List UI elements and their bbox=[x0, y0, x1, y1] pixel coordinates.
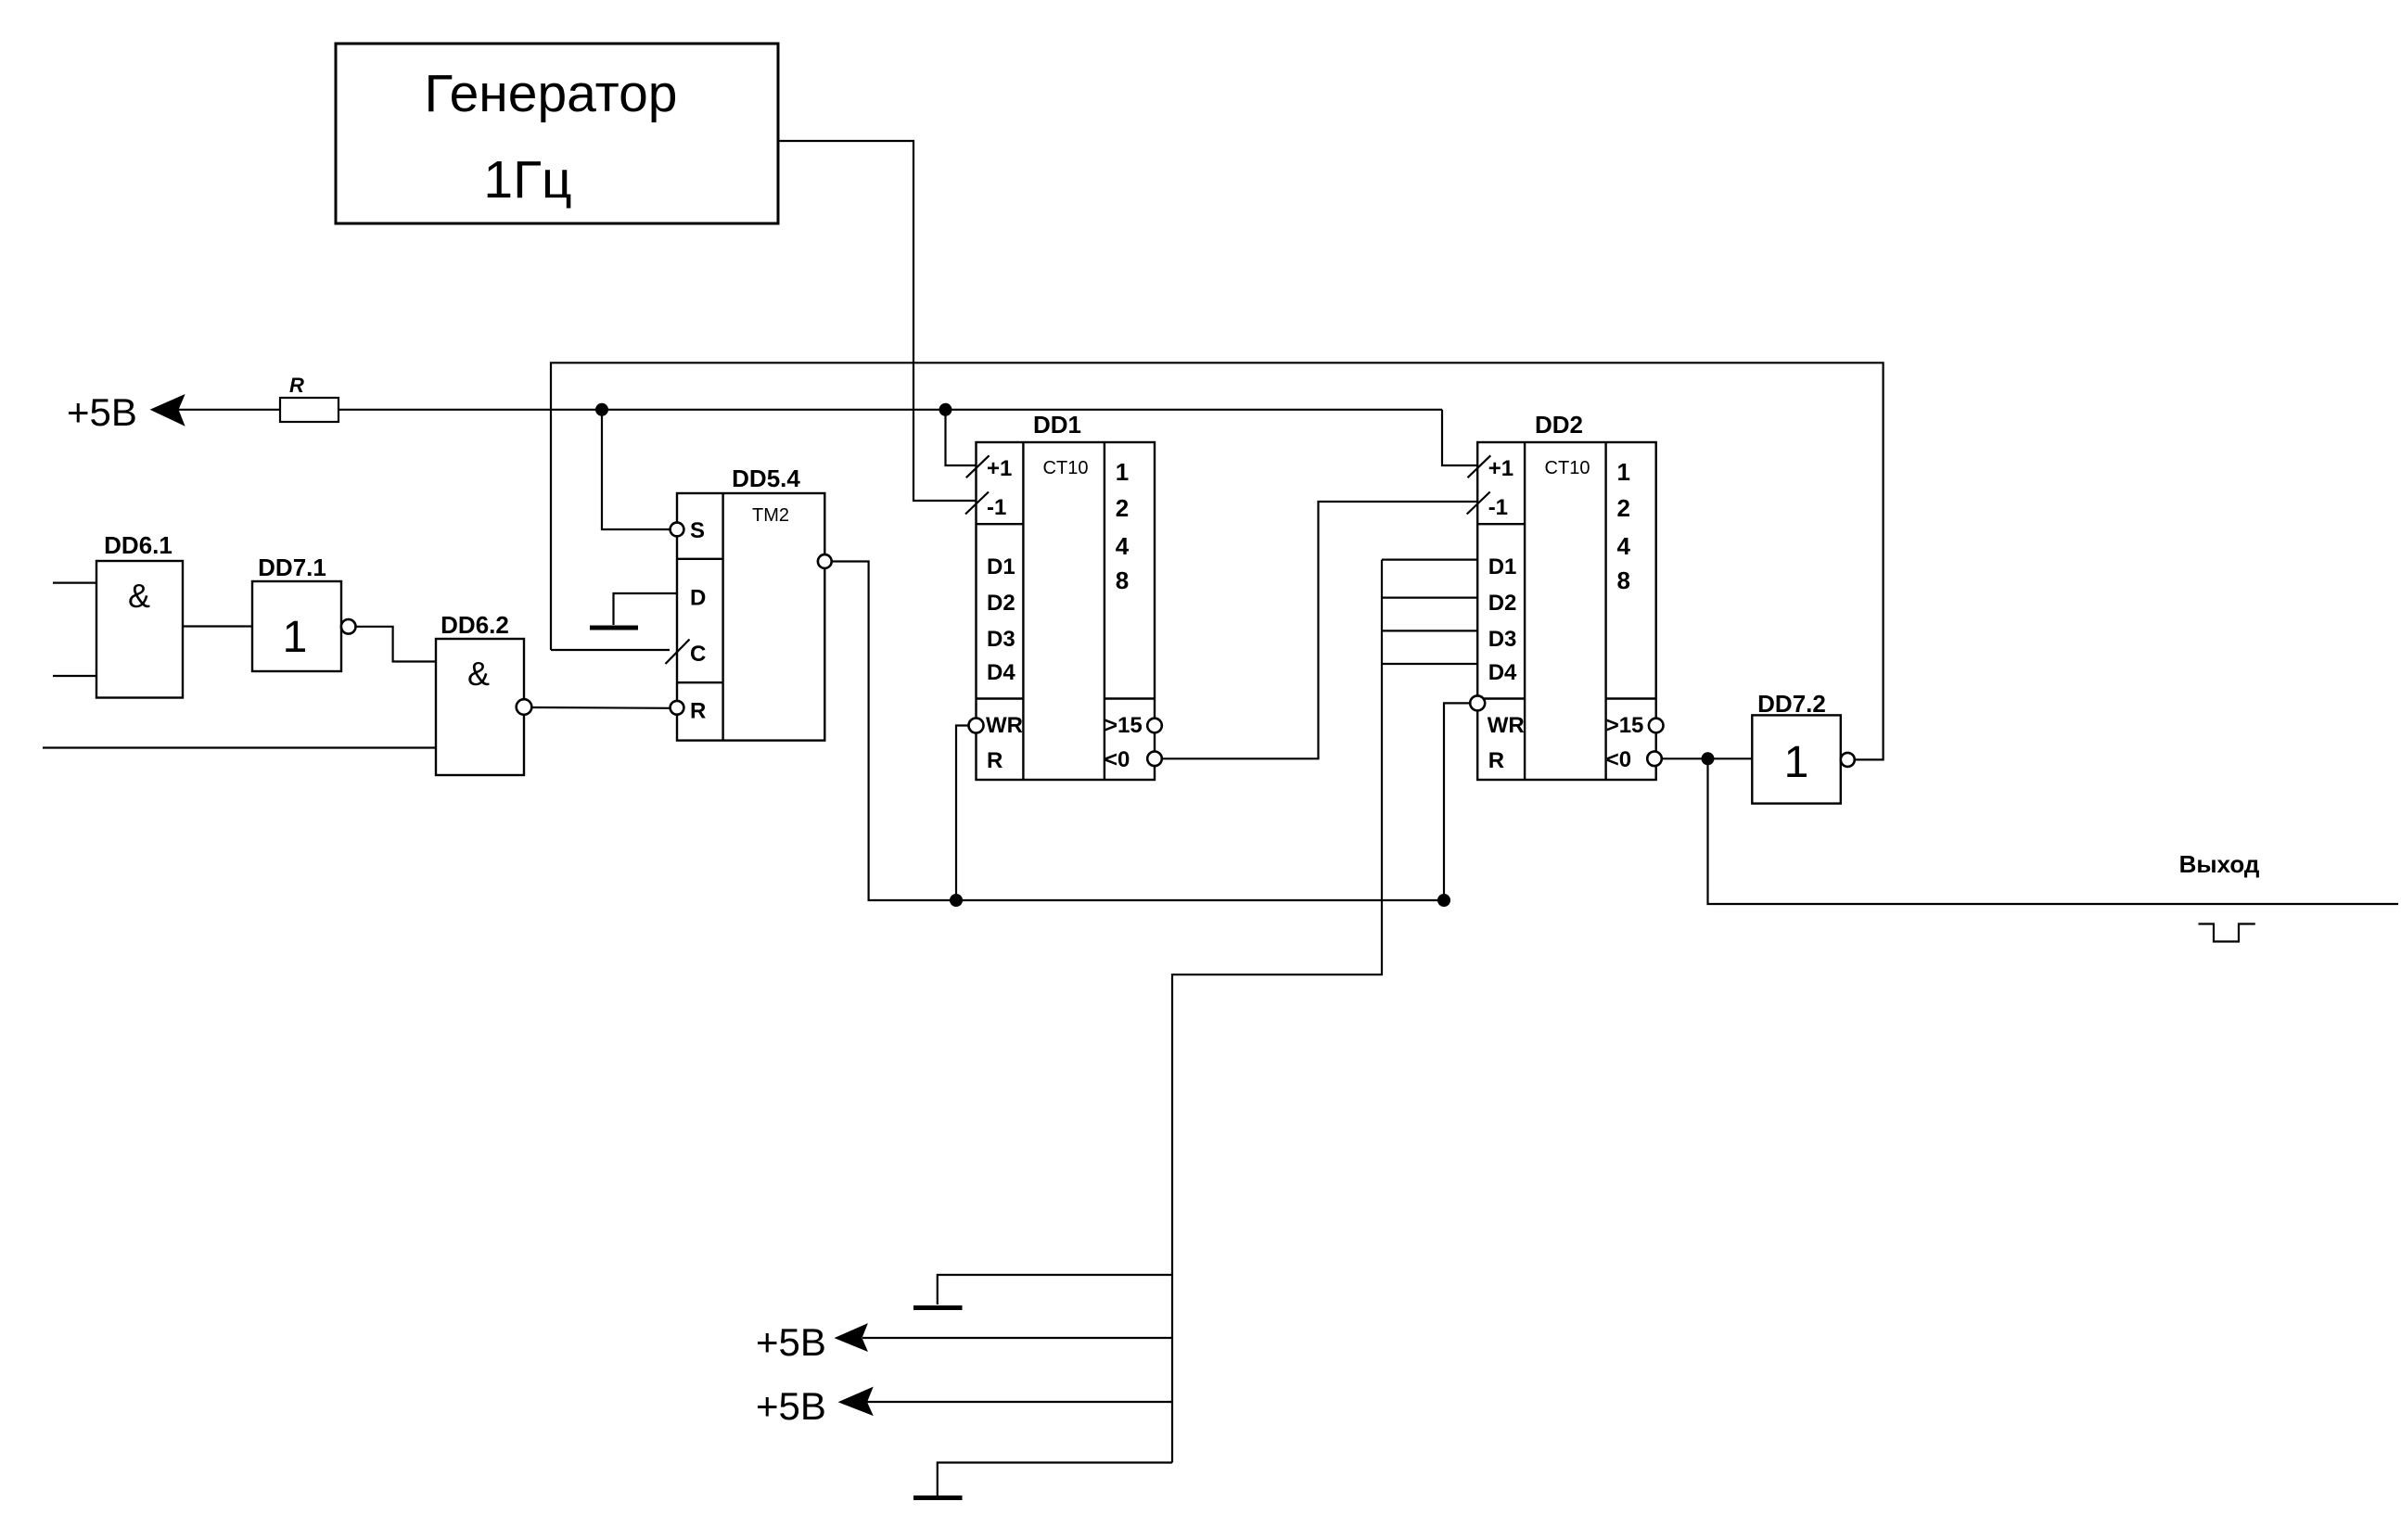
svg-text:C: C bbox=[690, 642, 706, 667]
junction node WR rail to DD2 WR bbox=[1437, 894, 1450, 907]
junction node WR rail to DD1 WR bbox=[950, 894, 963, 907]
svg-text:DD6.2: DD6.2 bbox=[441, 611, 509, 639]
svg-text:4: 4 bbox=[1116, 532, 1130, 560]
DD2 pin WR label and inversion circle bbox=[1470, 695, 1524, 738]
wire DD6.2 lower input bbox=[43, 746, 436, 748]
wire supply column to +5B arrow 2 bbox=[867, 1401, 1172, 1403]
svg-text:8: 8 bbox=[1116, 566, 1129, 594]
svg-text:2: 2 bbox=[1616, 494, 1629, 522]
generator G1 box "Генератор 1Гц" bbox=[336, 44, 778, 223]
svg-text:+5В: +5В bbox=[756, 1384, 826, 1428]
svg-text:WR: WR bbox=[1488, 713, 1525, 738]
power arrow 2 bbox=[839, 1388, 873, 1416]
svg-text:R: R bbox=[690, 699, 706, 724]
DD5.4 output inversion circle bbox=[818, 554, 832, 568]
junction node output net bbox=[1702, 752, 1715, 765]
svg-text:+5В: +5В bbox=[756, 1320, 826, 1364]
svg-text:DD5.4: DD5.4 bbox=[732, 465, 800, 492]
wire +5B rail (y=442) bbox=[176, 409, 1442, 411]
svg-text:DD6.1: DD6.1 bbox=[104, 531, 172, 559]
wire data bus to DD2 D1 bbox=[1382, 558, 1477, 560]
DD2 pin >15 label and inversion circle bbox=[1606, 713, 1664, 738]
svg-text:Генератор: Генератор bbox=[425, 64, 678, 123]
svg-text:CT10: CT10 bbox=[1545, 458, 1590, 478]
svg-text:+1: +1 bbox=[1488, 456, 1513, 481]
svg-text:R: R bbox=[987, 748, 1003, 773]
svg-text:D4: D4 bbox=[987, 660, 1015, 685]
upper ground symbol bbox=[913, 1305, 963, 1310]
AND gate DD6.2 bbox=[436, 611, 531, 775]
svg-text:4: 4 bbox=[1616, 532, 1630, 560]
counter DD1 CT10 box bbox=[977, 411, 1156, 780]
wire +5B rail to DD1 +1 input bbox=[946, 410, 977, 465]
wire data bus to DD2 D4 bbox=[1382, 663, 1477, 665]
power arrow 1 bbox=[836, 1324, 867, 1351]
wire DD6.1 input 2 bbox=[53, 675, 96, 677]
DD1 pin <0 label and inversion circle bbox=[1105, 747, 1162, 772]
svg-text:DD2: DD2 bbox=[1535, 411, 1583, 439]
svg-text:1: 1 bbox=[1116, 458, 1129, 486]
svg-text:D2: D2 bbox=[987, 591, 1015, 616]
wire data bus vertical down to supply column bbox=[1172, 560, 1382, 1463]
svg-text:DD7.1: DD7.1 bbox=[258, 554, 326, 581]
wire +5B rail to DD5.4 S pin bbox=[602, 410, 670, 529]
svg-text:-1: -1 bbox=[1488, 495, 1508, 520]
DD1 pin WR label and inversion circle bbox=[969, 713, 1023, 738]
DD2 pin -1 label and slash bbox=[1467, 492, 1508, 521]
wire generator output to DD1 -1 input bbox=[778, 141, 977, 501]
wire output net down to Vyhod line bbox=[1708, 758, 2399, 904]
wire DD7.1 output to DD6.2 input bbox=[356, 627, 437, 662]
AND gate DD6.1 bbox=[96, 531, 183, 698]
NOT gate DD7.1 bbox=[252, 554, 356, 671]
wire supply column to upper ground bbox=[938, 1275, 1172, 1305]
svg-text:D4: D4 bbox=[1488, 660, 1517, 685]
DD1 pin >15 label and inversion circle bbox=[1105, 713, 1162, 738]
svg-text:1: 1 bbox=[1784, 738, 1809, 787]
svg-text:-1: -1 bbox=[987, 495, 1006, 520]
svg-text:8: 8 bbox=[1616, 566, 1629, 594]
DD1 pin -1 label and slash bbox=[965, 492, 1006, 521]
svg-text:Выход: Выход bbox=[2179, 850, 2260, 878]
svg-text:D2: D2 bbox=[1488, 591, 1517, 616]
wire DD5.4 output down to WR rail (y=971) bbox=[832, 562, 1444, 901]
svg-text:1: 1 bbox=[283, 613, 308, 662]
power arrow to +5B bbox=[151, 395, 185, 426]
DD5.4 pin S label and inversion circle bbox=[670, 518, 705, 543]
svg-text:D1: D1 bbox=[987, 554, 1015, 579]
svg-text:WR: WR bbox=[986, 713, 1023, 738]
svg-text:R: R bbox=[1488, 748, 1504, 773]
svg-text:&: & bbox=[128, 577, 150, 615]
DD1 pin +1 label and slash bbox=[966, 455, 1013, 481]
svg-text:2: 2 bbox=[1116, 494, 1129, 522]
DD2 pin <0 label and inversion circle bbox=[1606, 747, 1662, 772]
wire feedback net (y=391) from DD7.2 output to DD5.4 C input bbox=[551, 363, 1884, 759]
wire data bus to DD2 D2 bbox=[1382, 596, 1477, 598]
svg-text:<0: <0 bbox=[1105, 747, 1130, 772]
svg-text:>15: >15 bbox=[1606, 713, 1644, 738]
NOT gate DD7.2 bbox=[1752, 690, 1855, 804]
svg-text:+1: +1 bbox=[987, 456, 1012, 481]
svg-text:1: 1 bbox=[1616, 458, 1629, 486]
lower ground symbol bbox=[913, 1495, 963, 1500]
wire DD6.1 input 1 bbox=[53, 581, 96, 583]
svg-text:>15: >15 bbox=[1105, 713, 1143, 738]
wire +5B rail end down to DD2 +1 input bbox=[1442, 410, 1477, 465]
svg-text:DD1: DD1 bbox=[1033, 411, 1081, 439]
wire DD6.1 output to DD7.1 bbox=[183, 625, 252, 627]
wire DD6.2 output to DD5.4 R pin bbox=[531, 706, 670, 709]
wire up to DD2 WR pin bbox=[1444, 703, 1470, 900]
flip-flop DD5.4 TM2 box bbox=[677, 465, 824, 741]
wire up to DD1 WR pin bbox=[956, 726, 969, 901]
wire DD2 <0 output to DD7.2 input bbox=[1662, 757, 1753, 759]
svg-text:D: D bbox=[690, 586, 706, 611]
svg-text:D3: D3 bbox=[987, 627, 1015, 652]
DD5.4 pin C label and dynamic-input slash bbox=[666, 640, 707, 668]
DD5.4 pin R label and inversion circle bbox=[670, 699, 707, 724]
svg-text:TM2: TM2 bbox=[752, 505, 789, 526]
svg-text:R: R bbox=[289, 374, 304, 397]
svg-text:CT10: CT10 bbox=[1043, 458, 1089, 478]
wire DD1 <0 output to DD2 -1 input bbox=[1162, 502, 1477, 758]
counter DD2 CT10 box bbox=[1477, 411, 1656, 780]
svg-text:+5В: +5В bbox=[67, 390, 137, 434]
ground symbol at DD5.4 D input bbox=[590, 626, 638, 630]
junction node on +5B rail to DD5.4 S bbox=[595, 403, 608, 416]
svg-text:D1: D1 bbox=[1488, 554, 1517, 579]
DD2 pin +1 label and slash bbox=[1468, 455, 1514, 481]
junction node on +5B rail to DD1 +1 bbox=[939, 403, 952, 416]
svg-text:1Гц: 1Гц bbox=[483, 150, 571, 210]
resistor R bbox=[280, 374, 338, 422]
wire supply column to +5B arrow 1 bbox=[862, 1337, 1172, 1339]
svg-text:D3: D3 bbox=[1488, 627, 1517, 652]
wire supply column to lower ground bbox=[938, 1463, 1172, 1496]
wire DD5.4 D input stub bbox=[614, 593, 678, 625]
negative pulse symbol bbox=[2199, 924, 2255, 942]
svg-text:&: & bbox=[467, 655, 490, 693]
wire data bus to DD2 D3 bbox=[1382, 630, 1477, 631]
svg-text:<0: <0 bbox=[1606, 747, 1631, 772]
svg-text:S: S bbox=[690, 518, 705, 543]
svg-text:DD7.2: DD7.2 bbox=[1757, 690, 1826, 718]
